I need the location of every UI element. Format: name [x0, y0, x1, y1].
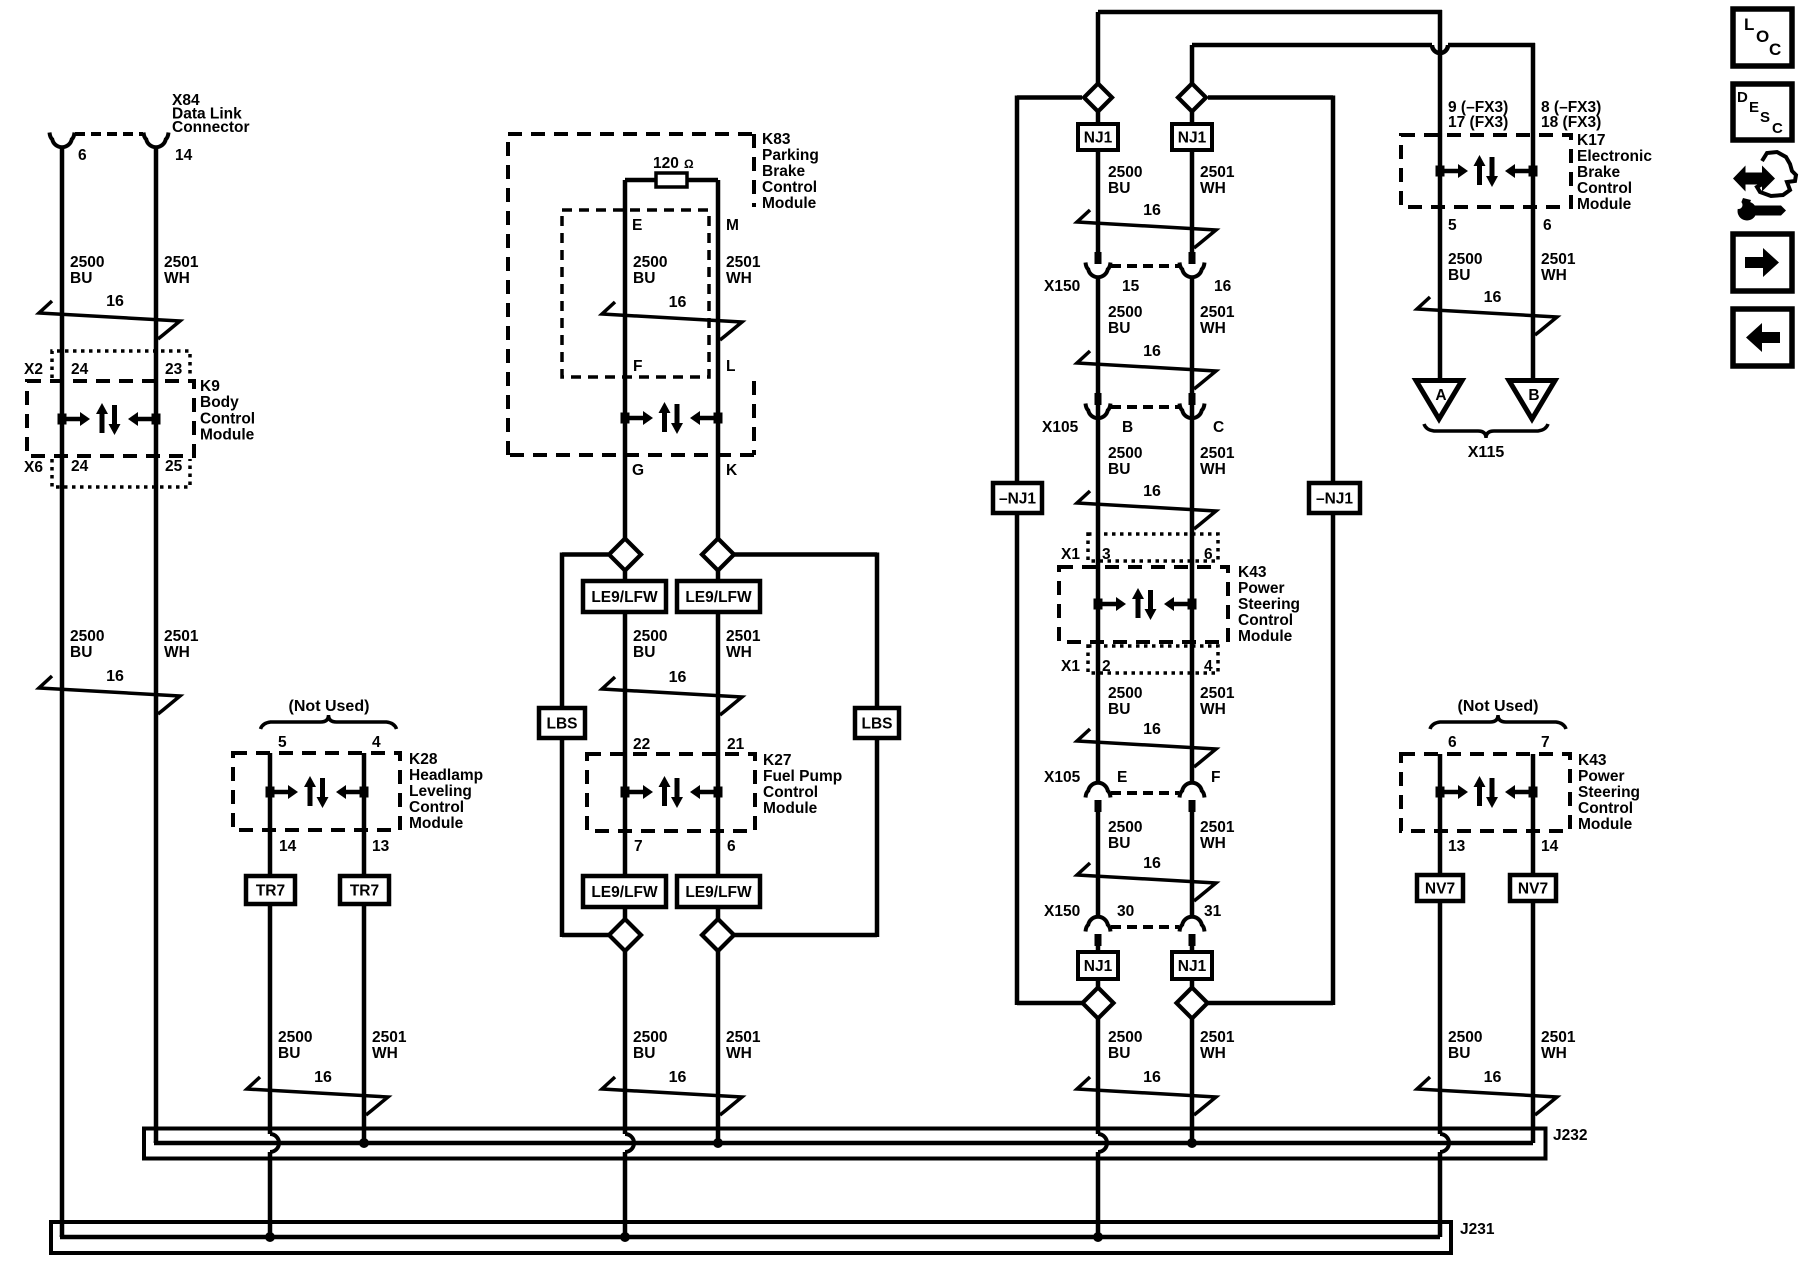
svg-text:2500: 2500	[633, 254, 667, 271]
svg-text:3: 3	[1102, 546, 1111, 563]
icon LOC box	[1733, 9, 1792, 66]
module K83 dashed box	[508, 134, 754, 455]
connector X1 bottom dotted box	[1088, 646, 1218, 673]
svg-text:22: 22	[633, 736, 650, 753]
svg-text:6: 6	[1204, 546, 1213, 563]
svg-text:2500: 2500	[278, 1029, 312, 1046]
svg-text:Module: Module	[762, 195, 817, 212]
svg-text:Electronic: Electronic	[1577, 148, 1652, 165]
svg-text:F: F	[633, 358, 642, 375]
brace X115	[1424, 424, 1548, 438]
svg-text:E: E	[632, 217, 642, 234]
svg-text:BU: BU	[1108, 180, 1130, 197]
wire 2500 BU K43 pin 13 to J231	[1438, 754, 1443, 1134]
svg-text:14: 14	[1541, 838, 1559, 855]
wire bypass left -NJ1	[1017, 95, 1082, 100]
svg-text:6: 6	[1543, 217, 1552, 234]
svg-text:K83: K83	[762, 131, 791, 148]
connector X105 cup BU	[1086, 404, 1111, 419]
svg-text:4: 4	[1204, 658, 1213, 675]
wire top jumper to K17 pin 9	[1098, 10, 1442, 15]
wire 2501 WH K43 pin 14 to J232	[1531, 754, 1536, 1143]
svg-text:X115: X115	[1468, 444, 1505, 461]
svg-text:16: 16	[1143, 721, 1161, 738]
wire 2500 BU from X84 pin 6	[60, 147, 65, 1237]
svg-text:2500: 2500	[1108, 1029, 1142, 1046]
module K9 dashed box	[27, 381, 194, 456]
tag LBS left	[539, 708, 585, 738]
module K43b dashed box	[1401, 754, 1570, 831]
connector X105 cup WH	[1180, 404, 1205, 419]
svg-text:2501: 2501	[1541, 1029, 1576, 1046]
junction dot J231 K27 BU	[620, 1232, 630, 1242]
tag NJ1 bottom left	[1078, 952, 1118, 979]
module K43 arrows	[1094, 599, 1103, 610]
connector X105 dashed link	[1111, 405, 1179, 409]
wire resistor left stub	[625, 178, 656, 183]
svg-text:BU: BU	[1108, 461, 1130, 478]
svg-text:13: 13	[1448, 838, 1466, 855]
svg-text:LBS: LBS	[547, 716, 578, 733]
wire gauge 16 K17	[1417, 297, 1557, 335]
svg-text:K28: K28	[409, 751, 438, 768]
wire bypass right LBS	[734, 552, 877, 557]
svg-text:Brake: Brake	[762, 163, 805, 180]
svg-text:K43: K43	[1238, 564, 1267, 581]
svg-text:B: B	[1528, 387, 1539, 404]
svg-text:(Not Used): (Not Used)	[289, 698, 370, 715]
svg-text:L: L	[726, 358, 735, 375]
svg-text:K17: K17	[1577, 132, 1605, 149]
svg-text:Module: Module	[409, 815, 464, 832]
svg-text:17 (FX3): 17 (FX3)	[1448, 114, 1508, 131]
svg-text:BU: BU	[1108, 701, 1130, 718]
terminal triangle B	[1509, 381, 1555, 420]
module K17 arrows	[1436, 166, 1445, 177]
module K43b arrows	[1436, 787, 1445, 798]
junction dot J232 TR7 WH	[359, 1138, 369, 1148]
svg-text:Control: Control	[1577, 180, 1632, 197]
connector X150 3031 tick BU	[1095, 934, 1102, 946]
svg-text:6: 6	[78, 147, 87, 164]
svg-text:2500: 2500	[633, 628, 667, 645]
svg-text:NJ1: NJ1	[1178, 958, 1207, 975]
svg-text:BU: BU	[1108, 1045, 1130, 1062]
connector X105 EF cup BU	[1086, 783, 1111, 798]
svg-text:5: 5	[1448, 217, 1457, 234]
svg-text:2501: 2501	[726, 254, 761, 271]
wire 2501 WH CAN bus	[1190, 45, 1195, 252]
svg-text:16: 16	[1143, 855, 1161, 872]
svg-text:WH: WH	[1200, 320, 1226, 337]
svg-text:25: 25	[165, 458, 183, 475]
node diamond CAN bottom WH	[1177, 988, 1208, 1019]
svg-text:Module: Module	[1578, 816, 1633, 833]
svg-text:2500: 2500	[1108, 819, 1142, 836]
svg-text:E: E	[1749, 99, 1759, 116]
svg-text:16: 16	[314, 1069, 332, 1086]
svg-text:Module: Module	[200, 427, 255, 444]
svg-text:Steering: Steering	[1578, 784, 1640, 801]
svg-text:Control: Control	[1578, 800, 1633, 817]
node diamond CAN bottom BU	[1083, 988, 1114, 1019]
svg-text:2501: 2501	[1200, 445, 1235, 462]
brace Not Used K43	[1430, 715, 1566, 729]
svg-text:WH: WH	[1200, 461, 1226, 478]
svg-text:Fuel Pump: Fuel Pump	[763, 768, 842, 785]
svg-text:2501: 2501	[164, 628, 199, 645]
wire 2500 BU from K28 pin 14	[268, 753, 273, 1134]
svg-text:14: 14	[175, 147, 193, 164]
svg-text:BU: BU	[70, 644, 92, 661]
tag NJ1 top left	[1078, 124, 1118, 150]
bus J231 inner wire	[60, 1235, 65, 1237]
module K43 dashed box	[1059, 567, 1228, 642]
svg-text:Parking: Parking	[762, 147, 819, 164]
connector X84 cup pin 14	[144, 133, 169, 148]
tag TR7 left	[246, 876, 295, 904]
svg-text:7: 7	[1541, 734, 1550, 751]
wire bypass left LBS	[562, 552, 608, 557]
svg-text:2500: 2500	[1108, 445, 1142, 462]
svg-text:K43: K43	[1578, 752, 1607, 769]
wire gauge 16 CAN 6	[1077, 1077, 1216, 1115]
svg-text:16: 16	[1214, 278, 1232, 295]
svg-text:WH: WH	[164, 644, 190, 661]
svg-text:J232: J232	[1553, 1127, 1587, 1144]
icon arrow right box	[1733, 234, 1792, 291]
svg-text:Power: Power	[1238, 580, 1285, 597]
svg-text:X105: X105	[1044, 769, 1081, 786]
tag LE9/LFW top right	[677, 581, 760, 612]
svg-text:M: M	[726, 217, 739, 234]
svg-text:Control: Control	[762, 179, 817, 196]
connector X105 EF dashed link	[1111, 791, 1179, 795]
svg-text:2501: 2501	[1200, 164, 1235, 181]
svg-text:X2: X2	[24, 361, 43, 378]
connector X150 3031 cup WH	[1180, 917, 1205, 932]
junction dot J232 K27 WH	[713, 1138, 723, 1148]
bus J232 splice pack box	[144, 1129, 1546, 1159]
svg-text:WH: WH	[164, 270, 190, 287]
bus J232 inner wire	[154, 1141, 159, 1143]
svg-text:Module: Module	[1238, 628, 1293, 645]
svg-text:2501: 2501	[1200, 304, 1235, 321]
svg-text:K9: K9	[200, 378, 220, 395]
svg-text:2500: 2500	[1108, 304, 1142, 321]
svg-text:13: 13	[372, 838, 390, 855]
tag LBS right	[855, 708, 899, 738]
connector X150 cup BU	[1086, 263, 1111, 278]
svg-text:Module: Module	[763, 800, 818, 817]
connector X105 tick WH	[1189, 393, 1196, 405]
svg-text:2501: 2501	[1200, 1029, 1235, 1046]
svg-text:BU: BU	[633, 644, 655, 661]
icon DESC box	[1733, 84, 1792, 140]
svg-text:(Not Used): (Not Used)	[1458, 698, 1539, 715]
svg-text:2500: 2500	[70, 628, 104, 645]
svg-text:2500: 2500	[70, 254, 104, 271]
wire gauge 16 K27 upper	[602, 677, 742, 715]
svg-text:2501: 2501	[1200, 685, 1235, 702]
svg-text:31: 31	[1204, 903, 1222, 920]
svg-text:2501: 2501	[372, 1029, 407, 1046]
wire top jumper to K17 pin 8	[1192, 43, 1432, 48]
svg-text:NV7: NV7	[1518, 881, 1548, 898]
svg-text:K: K	[726, 462, 738, 479]
junction dot J232 CAN WH	[1187, 1138, 1197, 1148]
svg-text:WH: WH	[726, 270, 752, 287]
svg-text:WH: WH	[1200, 180, 1226, 197]
connector X105 EF tick BU	[1095, 800, 1102, 812]
module K9 arrows	[58, 414, 67, 425]
svg-text:16: 16	[1484, 1069, 1502, 1086]
tag TR7 right	[340, 876, 389, 904]
svg-text:BU: BU	[1108, 835, 1130, 852]
svg-text:21: 21	[727, 736, 745, 753]
svg-text:2500: 2500	[1448, 251, 1482, 268]
svg-text:A: A	[1435, 387, 1446, 404]
node diamond CAN top WH	[1178, 84, 1206, 112]
svg-text:F: F	[1211, 769, 1220, 786]
connector X1 top dotted box	[1088, 534, 1218, 561]
svg-text:2501: 2501	[1200, 819, 1235, 836]
svg-text:2501: 2501	[726, 1029, 761, 1046]
svg-text:16: 16	[669, 294, 687, 311]
svg-text:16: 16	[1143, 202, 1161, 219]
svg-text:2500: 2500	[1448, 1029, 1482, 1046]
svg-text:WH: WH	[726, 1045, 752, 1062]
wire 2500 BU CAN bus	[1096, 12, 1101, 252]
junction dot J231 CAN BU	[1093, 1232, 1103, 1242]
wire bypass right -NJ1	[1208, 95, 1333, 100]
svg-text:C: C	[1772, 120, 1783, 137]
svg-text:2500: 2500	[633, 1029, 667, 1046]
svg-text:X1: X1	[1061, 658, 1080, 675]
svg-text:TR7: TR7	[350, 883, 379, 900]
brace Not Used K28	[261, 715, 397, 729]
svg-text:Power: Power	[1578, 768, 1625, 785]
svg-text:Module: Module	[1577, 196, 1632, 213]
module K83 arrows	[621, 413, 630, 424]
svg-text:B: B	[1122, 419, 1133, 436]
svg-text:D: D	[1737, 89, 1748, 106]
svg-text:16: 16	[669, 1069, 687, 1086]
svg-text:2501: 2501	[164, 254, 199, 271]
svg-text:16: 16	[1143, 343, 1161, 360]
svg-text:Ω: Ω	[684, 157, 694, 171]
tag NJ1 top right	[1172, 124, 1212, 150]
svg-text:WH: WH	[1200, 701, 1226, 718]
connector X84 cup pin 6	[50, 133, 75, 148]
svg-text:2500: 2500	[1108, 685, 1142, 702]
wire 2501 WH from K28 pin 13	[362, 753, 367, 1143]
svg-text:15: 15	[1122, 278, 1140, 295]
svg-text:24: 24	[71, 458, 89, 475]
svg-text:Brake: Brake	[1577, 164, 1620, 181]
svg-text:BU: BU	[633, 270, 655, 287]
tag -NJ1 left	[993, 483, 1042, 513]
tag LE9/LFW bottom left	[583, 876, 666, 907]
svg-text:5: 5	[278, 734, 287, 751]
junction dot J231 TR7 BU	[265, 1232, 275, 1242]
svg-text:BU: BU	[70, 270, 92, 287]
svg-text:WH: WH	[1200, 1045, 1226, 1062]
terminal triangle A	[1416, 381, 1462, 420]
wire gauge 16 CAN 1	[1077, 210, 1216, 248]
svg-text:Control: Control	[763, 784, 818, 801]
svg-text:6: 6	[727, 838, 736, 855]
connector X150 tick BU	[1095, 252, 1102, 264]
node diamond K27 bottom left	[609, 919, 641, 951]
wire gauge 16 K27 lower	[602, 1077, 742, 1115]
svg-text:16: 16	[1143, 1069, 1161, 1086]
tag NV7 left	[1417, 875, 1463, 901]
connector X150 cup WH	[1180, 263, 1205, 278]
connector X150 dashed link	[1111, 264, 1179, 268]
svg-text:Leveling: Leveling	[409, 783, 472, 800]
wire 2501 WH K83 pin K to J232	[716, 180, 721, 1143]
connector X84 dashed link	[75, 132, 143, 136]
svg-text:Control: Control	[1238, 612, 1293, 629]
module K27 arrows	[621, 787, 630, 798]
module K17 dashed box	[1401, 135, 1571, 207]
svg-text:LE9/LFW: LE9/LFW	[591, 589, 658, 606]
wire gauge 16 TR7	[247, 1077, 388, 1115]
svg-text:E: E	[1117, 769, 1127, 786]
icon arrow left box	[1733, 309, 1792, 366]
svg-text:Headlamp: Headlamp	[409, 767, 483, 784]
wire gauge 16 NV7	[1417, 1077, 1557, 1115]
module K28 dashed box	[233, 753, 400, 830]
wire gauge 16 left upper	[39, 301, 180, 339]
svg-text:G: G	[632, 462, 644, 479]
wire gauge 16 CAN 2	[1077, 351, 1216, 389]
svg-text:BU: BU	[633, 1045, 655, 1062]
wire gauge 16 K83	[602, 302, 742, 340]
wire 2500 BU K83 pin G to J231	[623, 180, 628, 1134]
connector X105 tick BU	[1095, 393, 1102, 405]
svg-text:X150: X150	[1044, 903, 1080, 920]
connector X105 EF cup WH	[1180, 783, 1205, 798]
svg-text:LE9/LFW: LE9/LFW	[591, 884, 658, 901]
svg-text:NJ1: NJ1	[1084, 130, 1113, 147]
svg-text:Steering: Steering	[1238, 596, 1300, 613]
svg-text:BU: BU	[1448, 267, 1470, 284]
tag NV7 right	[1510, 875, 1556, 901]
module K28 arrows	[266, 787, 275, 798]
connector K83 inner dashed box	[562, 210, 709, 377]
connector X150 3031 cup BU	[1086, 917, 1111, 932]
svg-text:NJ1: NJ1	[1178, 130, 1207, 147]
svg-text:16: 16	[1484, 289, 1502, 306]
svg-text:6: 6	[1448, 734, 1457, 751]
connector X6 dotted box	[52, 459, 190, 487]
svg-text:Control: Control	[409, 799, 464, 816]
svg-text:X150: X150	[1044, 278, 1080, 295]
node diamond CAN top BU	[1084, 84, 1112, 112]
svg-text:–NJ1: –NJ1	[1316, 491, 1353, 508]
wire gauge 16 CAN 4	[1077, 729, 1216, 767]
svg-text:Body: Body	[200, 394, 239, 411]
svg-text:BU: BU	[278, 1045, 300, 1062]
svg-text:LE9/LFW: LE9/LFW	[685, 884, 752, 901]
resistor 120 ohm	[656, 173, 687, 187]
bus J231 splice pack box	[51, 1222, 1451, 1253]
svg-text:16: 16	[106, 293, 124, 310]
svg-text:Control: Control	[200, 410, 255, 427]
wire gauge 16 CAN 5	[1077, 863, 1216, 901]
svg-text:120: 120	[653, 155, 679, 172]
svg-text:C: C	[1769, 40, 1781, 59]
tag -NJ1 right	[1309, 483, 1360, 513]
svg-text:7: 7	[634, 838, 643, 855]
svg-text:2500: 2500	[1108, 164, 1142, 181]
svg-text:18 (FX3): 18 (FX3)	[1541, 114, 1601, 131]
connector X150 3031 tick WH	[1189, 934, 1196, 946]
wire gauge 16 CAN 3	[1077, 491, 1216, 529]
svg-text:TR7: TR7	[256, 883, 285, 900]
svg-text:NJ1: NJ1	[1084, 958, 1113, 975]
svg-text:Connector: Connector	[172, 119, 250, 136]
module K27 dashed box	[587, 754, 755, 831]
wire gauge 16 left lower	[39, 676, 180, 714]
svg-text:WH: WH	[1541, 267, 1567, 284]
svg-text:X1: X1	[1061, 546, 1080, 563]
svg-text:16: 16	[669, 669, 687, 686]
svg-text:X105: X105	[1042, 419, 1079, 436]
svg-text:16: 16	[1143, 483, 1161, 500]
svg-text:16: 16	[106, 668, 124, 685]
svg-text:30: 30	[1117, 903, 1134, 920]
icon vehicle wrench	[1733, 166, 1775, 192]
svg-text:2501: 2501	[726, 628, 761, 645]
node diamond K83-G	[609, 539, 641, 571]
tag LE9/LFW top left	[583, 581, 666, 612]
svg-text:4: 4	[372, 734, 381, 751]
connector X105 EF tick WH	[1189, 800, 1196, 812]
svg-text:S: S	[1760, 109, 1770, 126]
wire resistor right stub	[687, 178, 718, 183]
svg-text:O: O	[1756, 27, 1769, 46]
svg-text:24: 24	[71, 361, 89, 378]
svg-text:C: C	[1213, 419, 1224, 436]
svg-text:WH: WH	[1541, 1045, 1567, 1062]
svg-text:BU: BU	[1108, 320, 1130, 337]
svg-text:WH: WH	[726, 644, 752, 661]
connector X150 3031 dashed link	[1111, 925, 1179, 929]
connector X2 dotted box	[52, 351, 190, 378]
svg-text:K27: K27	[763, 752, 791, 769]
svg-text:NV7: NV7	[1425, 881, 1455, 898]
tag LE9/LFW bottom right	[677, 876, 760, 907]
svg-text:LBS: LBS	[862, 716, 893, 733]
svg-text:23: 23	[165, 361, 183, 378]
svg-text:L: L	[1744, 15, 1754, 34]
node diamond K27 bottom right	[702, 919, 734, 951]
svg-text:LE9/LFW: LE9/LFW	[685, 589, 752, 606]
svg-text:WH: WH	[372, 1045, 398, 1062]
svg-text:2: 2	[1102, 658, 1111, 675]
node diamond K83-K	[702, 539, 734, 571]
svg-text:X6: X6	[24, 459, 43, 476]
connector X150 tick WH	[1189, 252, 1196, 264]
svg-text:WH: WH	[1200, 835, 1226, 852]
svg-text:14: 14	[279, 838, 297, 855]
svg-text:–NJ1: –NJ1	[999, 491, 1036, 508]
svg-text:BU: BU	[1448, 1045, 1470, 1062]
svg-text:2501: 2501	[1541, 251, 1576, 268]
